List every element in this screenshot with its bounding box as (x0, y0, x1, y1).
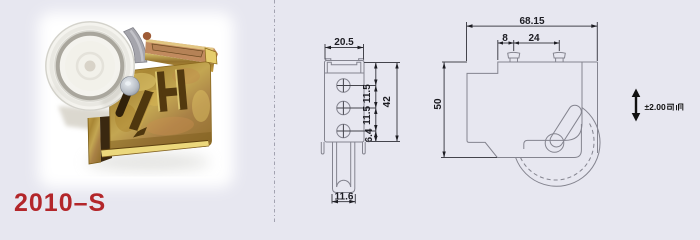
separator dashed line (274, 0, 276, 224)
stamped H (mirrored view) (156, 69, 188, 112)
glyph 调 (677, 104, 683, 111)
housing top box (pink bronze) (145, 39, 218, 64)
body outline (467, 62, 598, 158)
adjustment slot dark (120, 91, 129, 113)
svg-text:20.5: 20.5 (334, 37, 354, 48)
channel left wall (88, 117, 101, 164)
dim 8 (497, 40, 499, 60)
screws side view (508, 52, 566, 62)
svg-text:8: 8 (502, 33, 508, 44)
dim 50 (442, 61, 467, 63)
bright bottom fold (101, 141, 209, 158)
inner plate (524, 62, 582, 149)
svg-text:42: 42 (382, 96, 393, 108)
dim 11.6 (331, 194, 333, 204)
axle pin (121, 77, 140, 96)
dim 42 (364, 62, 400, 64)
svg-text:±2.00: ±2.00 (645, 102, 666, 112)
svg-text:11.5: 11.5 (362, 84, 373, 103)
wheel circle dashed (521, 121, 595, 180)
gold plate (109, 62, 211, 155)
dim 68.15 (466, 22, 468, 61)
copper nub (143, 32, 151, 40)
axle small circle (545, 134, 564, 153)
dim 20.5 (324, 44, 326, 60)
svg-text:50: 50 (433, 98, 444, 110)
slot capsule (550, 105, 581, 147)
glyph 可 (667, 104, 674, 110)
wheel (white roller, in front of plate corner) (45, 21, 135, 111)
photo white backdrop (38, 12, 234, 188)
svg-text:11.5: 11.5 (362, 106, 373, 125)
screws (337, 79, 350, 138)
svg-text:68.15: 68.15 (519, 16, 544, 27)
soft shadow under product (86, 153, 210, 171)
svg-text:2010–S: 2010–S (14, 189, 106, 217)
svg-text:11.6: 11.6 (335, 191, 354, 202)
wheel front (333, 142, 355, 193)
cap band (325, 72, 365, 74)
shadow band near plate bottom (110, 132, 212, 151)
body outline (325, 61, 365, 143)
stamped Z mark (129, 90, 154, 131)
wheel guard arm (gray steel) (124, 28, 147, 63)
dim 24 (558, 40, 560, 51)
svg-text:6.4: 6.4 (364, 128, 375, 142)
adjustment annotation (632, 89, 683, 122)
screw leaders (337, 85, 376, 87)
shading on wheel lower-right (100, 74, 129, 108)
legs (321, 142, 324, 154)
wheel circle solid (516, 108, 600, 187)
chain dim line (375, 63, 377, 143)
shadow under wheel (58, 106, 112, 132)
svg-text:24: 24 (528, 33, 540, 44)
top-right tab (205, 48, 217, 64)
